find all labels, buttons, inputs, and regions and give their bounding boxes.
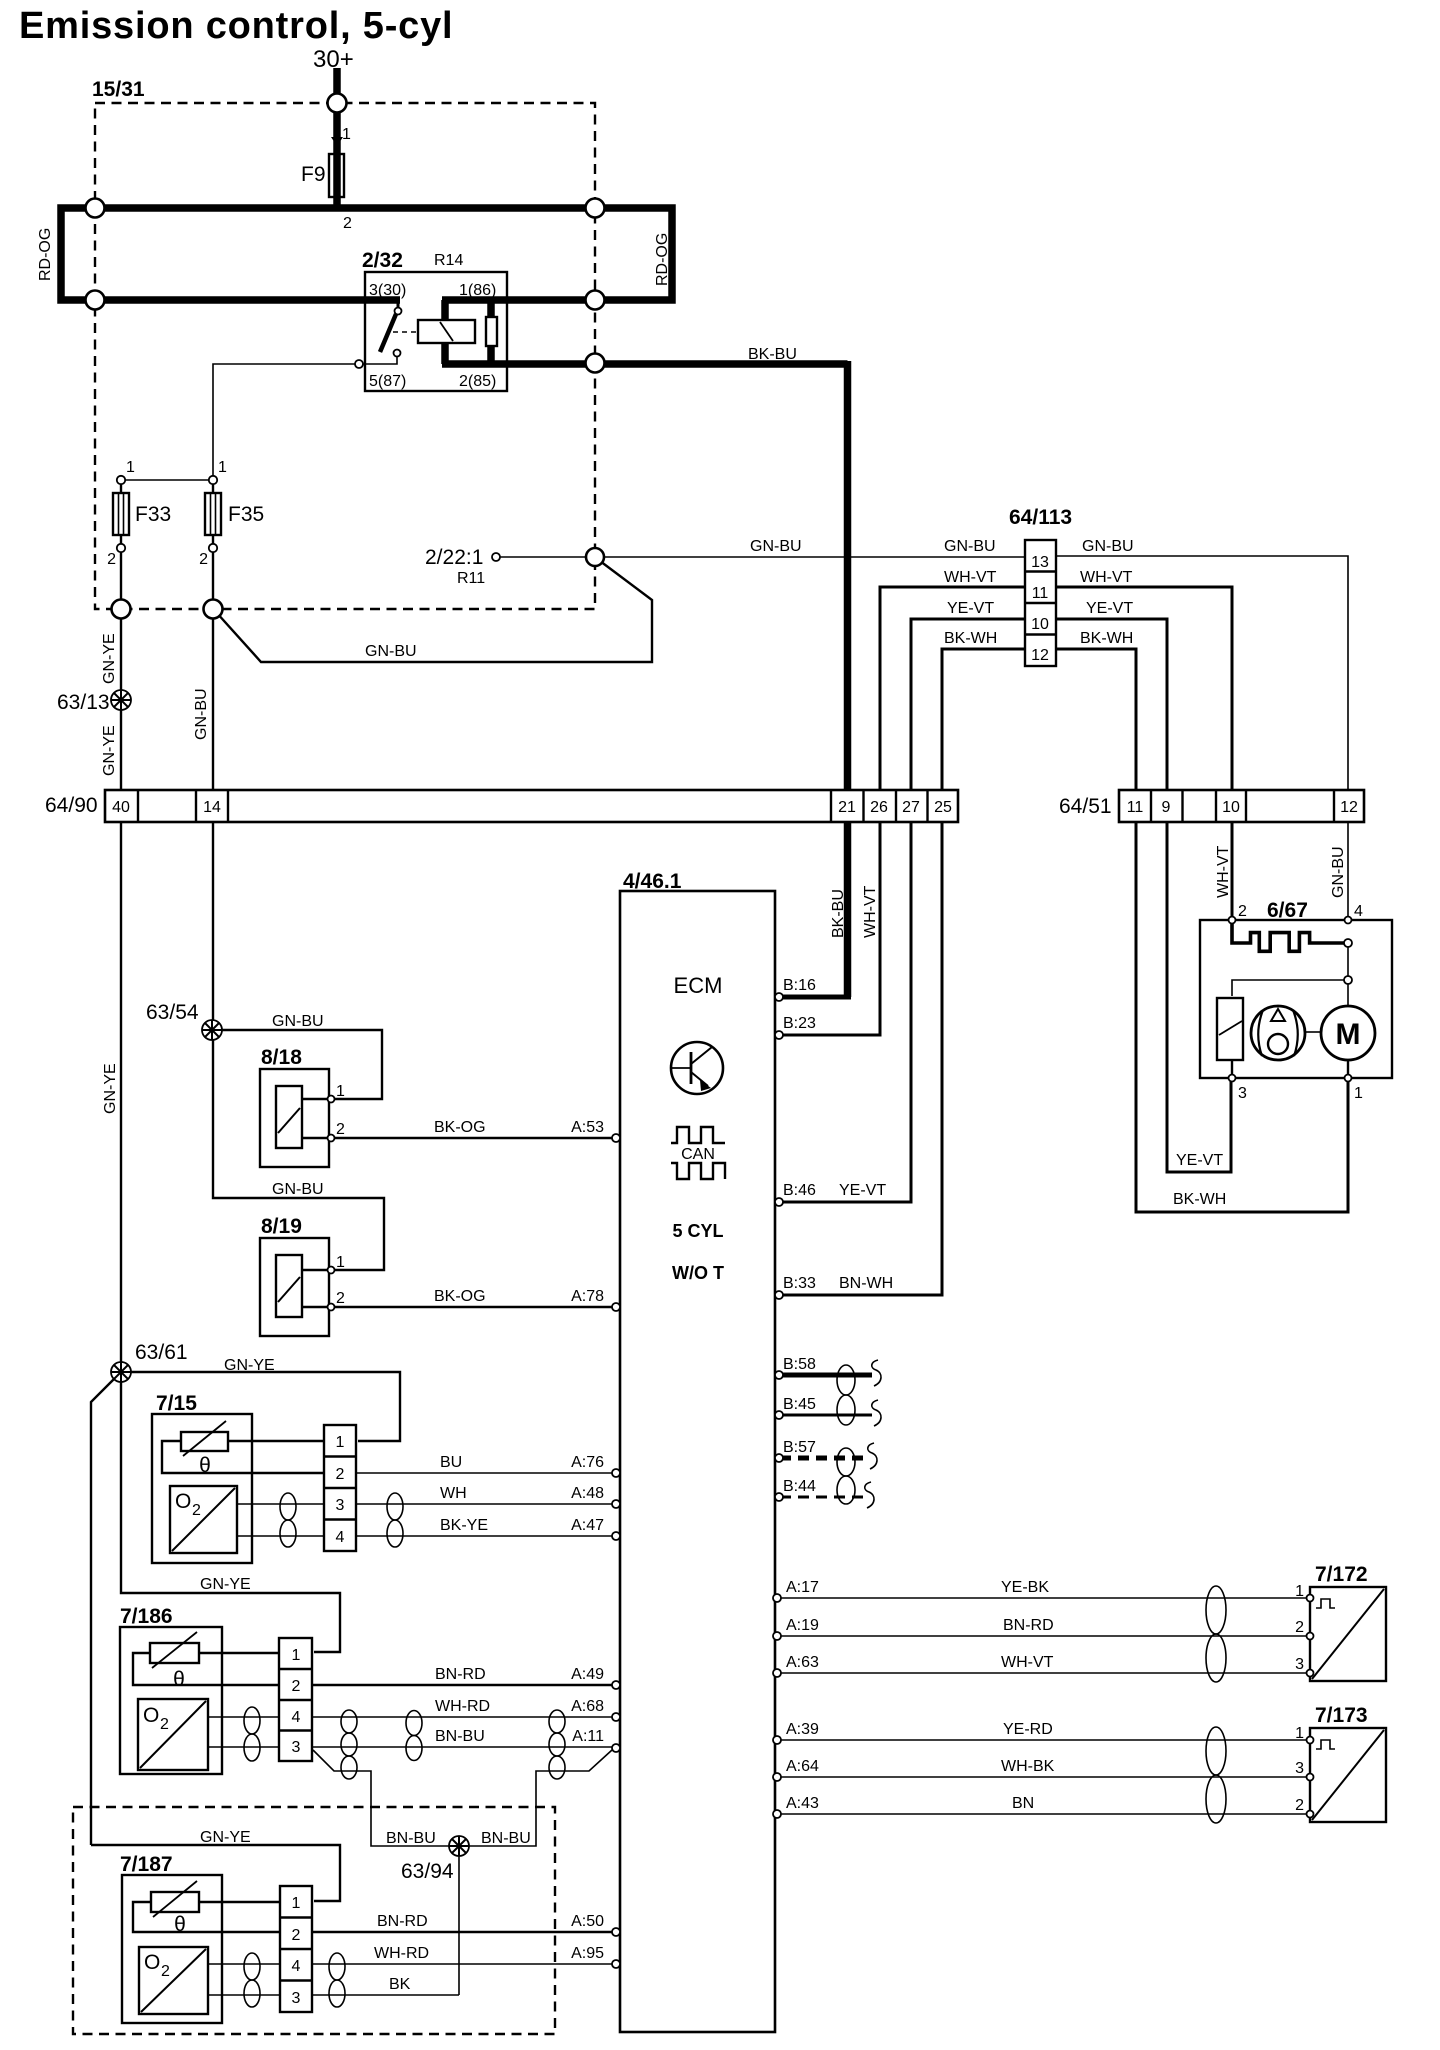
wire B:44 dashed stub	[780, 1496, 863, 1499]
break symbol B:57	[868, 1443, 877, 1469]
sender square wave	[1232, 923, 1344, 951]
level resistor 6/67	[1217, 998, 1243, 1060]
svg-text:2: 2	[343, 215, 352, 232]
svg-text:WH-VT: WH-VT	[944, 569, 997, 586]
connector 7/186	[279, 1638, 312, 1761]
svg-text:63/61: 63/61	[135, 1341, 188, 1364]
svg-text:1: 1	[336, 1434, 345, 1451]
dashed box 15/31	[95, 103, 595, 609]
svg-text:4: 4	[292, 1958, 301, 1975]
svg-text:2: 2	[336, 1466, 345, 1483]
svg-text:W/O T: W/O T	[672, 1263, 724, 1283]
node circles right dashed edge	[586, 199, 605, 218]
svg-text:3: 3	[292, 1990, 301, 2007]
svg-text:12: 12	[1031, 647, 1049, 664]
wire WH-RD to A:95	[312, 1963, 615, 1965]
svg-text:B:44: B:44	[783, 1478, 816, 1495]
svg-text:A:50: A:50	[571, 1913, 604, 1930]
svg-text:GN-BU: GN-BU	[272, 1013, 324, 1030]
svg-text:1: 1	[292, 1647, 301, 1664]
svg-text:6/67: 6/67	[1267, 899, 1308, 922]
svg-text:B:58: B:58	[783, 1356, 816, 1373]
svg-text:A:95: A:95	[571, 1945, 604, 1962]
twisted pair 7/15 right	[387, 1493, 403, 1547]
svg-text:2: 2	[199, 551, 208, 568]
pump unit 6/67 box	[1200, 920, 1392, 1078]
arrowhead on F9 feed	[331, 137, 343, 146]
break symbol B:45	[872, 1400, 881, 1426]
relay switch contact drop	[397, 300, 400, 308]
relay 2/32 R14 box	[365, 272, 507, 391]
svg-text:GN-BU: GN-BU	[750, 538, 802, 555]
relay switch contacts	[395, 308, 402, 315]
svg-text:BN-BU: BN-BU	[435, 1728, 485, 1745]
wire WH to A:48	[356, 1503, 615, 1505]
wire GN-BU down to 8/19	[213, 1040, 384, 1270]
svg-text:2: 2	[292, 1678, 301, 1695]
wire BK-OG 8/19 to A:78	[335, 1306, 615, 1308]
svg-text:WH-VT: WH-VT	[1215, 845, 1232, 898]
svg-text:A:78: A:78	[571, 1288, 604, 1305]
wire node to node	[1347, 947, 1349, 976]
svg-text:1: 1	[1295, 1725, 1304, 1742]
svg-text:B:33: B:33	[783, 1275, 816, 1292]
svg-text:GN-YE: GN-YE	[200, 1576, 251, 1593]
wire shield 7/186 via 63/94	[313, 1750, 612, 1846]
relay resistor	[486, 317, 497, 346]
wire BK-WH right of 64/113	[1056, 649, 1348, 1212]
svg-text:WH: WH	[440, 1485, 467, 1502]
svg-text:4: 4	[292, 1709, 301, 1726]
wire YE-VT via cell 27 to B:46	[780, 619, 1025, 1202]
connector 64/113	[1025, 540, 1056, 666]
svg-text:25: 25	[934, 799, 952, 816]
wire WH-VT A:63 to 7/172 pin3	[778, 1672, 1306, 1674]
svg-text:1: 1	[1295, 1583, 1304, 1600]
svg-text:A:48: A:48	[571, 1485, 604, 1502]
wire 63/94 down to BK	[458, 1856, 460, 1995]
svg-text:B:45: B:45	[783, 1396, 816, 1413]
svg-text:A:49: A:49	[571, 1666, 604, 1683]
pin 4 of 6/67	[1345, 917, 1352, 924]
svg-text:GN-YE: GN-YE	[101, 633, 118, 684]
fuse F9	[329, 154, 344, 197]
relay dashed actuator link	[393, 331, 418, 333]
svg-text:2: 2	[160, 1716, 169, 1733]
svg-text:Emission control, 5-cyl: Emission control, 5-cyl	[19, 5, 453, 47]
ECM 4/46.1 box	[620, 891, 775, 2032]
svg-text:WH-VT: WH-VT	[862, 885, 879, 938]
svg-text:A:19: A:19	[786, 1617, 819, 1634]
node circles bottom dashed edge	[112, 600, 131, 619]
fuel pump symbol	[1251, 1006, 1305, 1060]
wire 5(87) to contact	[363, 356, 397, 364]
svg-text:3: 3	[336, 1497, 345, 1514]
wire GN-BU branch to F35 node	[216, 561, 652, 662]
svg-text:2(85): 2(85)	[459, 373, 496, 390]
svg-text:8/19: 8/19	[261, 1215, 302, 1238]
wire YE-VT right of 64/113	[1056, 619, 1231, 1172]
CAN symbol	[671, 1127, 725, 1179]
wire F33-F35 pin1 link	[121, 479, 213, 481]
svg-text:A:11: A:11	[572, 1728, 604, 1745]
node on wave	[1344, 939, 1352, 947]
svg-text:5 CYL: 5 CYL	[672, 1221, 723, 1241]
wire YE-RD A:39 to 7/173 pin1	[778, 1739, 1306, 1741]
fuse F33	[117, 476, 125, 484]
svg-text:WH-RD: WH-RD	[435, 1698, 490, 1715]
svg-text:2: 2	[107, 551, 116, 568]
svg-text:9: 9	[1162, 799, 1171, 816]
svg-text:2: 2	[1295, 1797, 1304, 1814]
svg-text:2: 2	[1295, 1619, 1304, 1636]
svg-text:BK-OG: BK-OG	[434, 1288, 486, 1305]
twisted pair 7/186 left	[244, 1707, 260, 1761]
svg-text:2: 2	[292, 1927, 301, 1944]
svg-text:1: 1	[218, 459, 227, 476]
wire sender link	[1232, 980, 1344, 996]
svg-text:1: 1	[1354, 1085, 1363, 1102]
svg-text:GN-YE: GN-YE	[102, 1063, 119, 1114]
svg-text:2: 2	[336, 1121, 345, 1138]
svg-text:YE-VT: YE-VT	[1086, 600, 1133, 617]
svg-text:B:16: B:16	[783, 977, 816, 994]
wire BN A:43 to 7/173 pin2	[778, 1813, 1306, 1815]
pump motor M	[1321, 1006, 1375, 1060]
relay coil feeds thick	[442, 296, 507, 304]
svg-text:1: 1	[336, 1254, 345, 1271]
svg-text:WH-VT: WH-VT	[1001, 1654, 1054, 1671]
svg-text:YE-VT: YE-VT	[839, 1182, 886, 1199]
wire BK-BU thick from 2(85)	[442, 360, 848, 368]
svg-text:GN-BU: GN-BU	[272, 1181, 324, 1198]
wire B:57 dashed stub	[780, 1456, 866, 1461]
wire GN-BU to 64/113 pin 13	[500, 556, 1025, 558]
twisted pair 7/173	[1206, 1727, 1226, 1823]
svg-text:GN-BU: GN-BU	[1330, 846, 1347, 898]
svg-text:B:23: B:23	[783, 1015, 816, 1032]
svg-text:3: 3	[1238, 1085, 1247, 1102]
svg-text:12: 12	[1340, 799, 1358, 816]
wire YE-BK A:17 to 7/172 pin1	[778, 1597, 1306, 1599]
svg-text:F9: F9	[301, 163, 326, 186]
svg-text:BK-WH: BK-WH	[1080, 630, 1133, 647]
svg-text:YE-BK: YE-BK	[1001, 1579, 1049, 1596]
svg-text:7/172: 7/172	[1315, 1563, 1368, 1586]
svg-text:2: 2	[336, 1290, 345, 1307]
svg-text:BK-WH: BK-WH	[944, 630, 997, 647]
svg-text:11: 11	[1032, 585, 1049, 602]
svg-text:YE-VT: YE-VT	[1176, 1152, 1223, 1169]
svg-text:7/173: 7/173	[1315, 1704, 1368, 1727]
svg-text:2: 2	[192, 1502, 201, 1519]
svg-text:4: 4	[1354, 903, 1363, 920]
svg-text:3: 3	[292, 1739, 301, 1756]
strip 64/90	[105, 790, 958, 822]
pin 2 of 6/67	[1229, 917, 1236, 924]
wire GN-BU right of 64/113	[1056, 556, 1348, 918]
svg-text:GN-YE: GN-YE	[101, 725, 118, 776]
node circle top dashed	[328, 94, 347, 113]
solenoid valve 8/19	[260, 1238, 331, 1336]
svg-text:WH-BK: WH-BK	[1001, 1758, 1055, 1775]
svg-text:BK-OG: BK-OG	[434, 1119, 486, 1136]
twisted pair B:57/B:44	[837, 1448, 855, 1504]
svg-text:BU: BU	[440, 1454, 462, 1471]
O2 sensor 7/187	[122, 1875, 280, 2023]
svg-text:YE-RD: YE-RD	[1003, 1721, 1053, 1738]
svg-text:11: 11	[1127, 799, 1144, 816]
node circles left dashed edge	[86, 199, 105, 218]
wire BK to 63/94	[312, 1994, 459, 1996]
svg-text:BN-BU: BN-BU	[481, 1830, 531, 1847]
svg-text:RD-OG: RD-OG	[654, 233, 671, 286]
svg-text:4/46.1: 4/46.1	[623, 870, 682, 893]
svg-text:64/90: 64/90	[45, 794, 98, 817]
svg-text:64/113: 64/113	[1009, 506, 1072, 529]
svg-text:BN-RD: BN-RD	[435, 1666, 486, 1683]
svg-text:CAN: CAN	[681, 1146, 715, 1163]
wire BN-BU to A:11	[312, 1746, 613, 1748]
splice 63/54	[202, 1020, 222, 1040]
svg-text:7/15: 7/15	[156, 1392, 197, 1415]
svg-text:BN-WH: BN-WH	[839, 1275, 893, 1292]
twisted pair 7/186 right triple	[341, 1710, 357, 1779]
svg-text:M: M	[1336, 1018, 1361, 1051]
wire BN-RD to A:50	[312, 1931, 615, 1933]
wire GN-BU down from F35 node	[212, 618, 214, 790]
svg-text:A:53: A:53	[571, 1119, 604, 1136]
svg-text:1: 1	[126, 459, 135, 476]
wire BN-RD A:19 to 7/172 pin2	[778, 1635, 1306, 1637]
svg-text:WH-RD: WH-RD	[374, 1945, 429, 1962]
twisted pair 7/187 left	[244, 1953, 260, 2007]
svg-text:A:47: A:47	[571, 1517, 604, 1534]
ECM pin circles right	[775, 993, 783, 1001]
twisted pair 7/172	[1206, 1586, 1226, 1682]
wire WH-RD to A:68	[312, 1716, 615, 1718]
twisted pair 7/187 right	[329, 1953, 345, 2007]
svg-text:3: 3	[1295, 1760, 1304, 1777]
wire BK-OG 8/18 to A:53	[335, 1137, 615, 1139]
relay switch arm	[380, 314, 396, 352]
svg-text:2/22:1: 2/22:1	[425, 546, 483, 569]
svg-text:21: 21	[838, 799, 856, 816]
svg-text:A:17: A:17	[786, 1579, 819, 1596]
svg-text:A:64: A:64	[786, 1758, 819, 1775]
svg-text:B:57: B:57	[783, 1439, 816, 1456]
svg-text:YE-VT: YE-VT	[947, 600, 994, 617]
wire B:16 thick	[780, 995, 851, 1000]
twisted pair 7/15 left	[280, 1493, 296, 1547]
twisted pair B:58/B:45	[837, 1365, 855, 1425]
svg-text:O: O	[175, 1490, 191, 1513]
wire GN-YE diagonal from 63/61	[91, 1379, 114, 1845]
wire GN-BU to 8/18 pin1	[222, 1030, 382, 1099]
svg-text:WH-VT: WH-VT	[1080, 569, 1133, 586]
svg-text:1: 1	[292, 1895, 301, 1912]
wire GN-YE to 7/186	[121, 1382, 340, 1652]
wire BK-YE to A:47	[356, 1535, 615, 1537]
svg-text:10: 10	[1222, 799, 1240, 816]
wire GN-YE down from F33 node	[120, 618, 122, 790]
O2 sensor 7/186	[120, 1627, 279, 1774]
svg-text:BN: BN	[1012, 1795, 1034, 1812]
svg-text:GN-BU: GN-BU	[1082, 538, 1134, 555]
wire GN-YE below strip to 63/61	[120, 822, 122, 1372]
svg-text:2: 2	[161, 1963, 170, 1980]
connector 7/15	[324, 1425, 356, 1551]
wire WH-VT right of 64/113	[1056, 587, 1232, 918]
svg-text:26: 26	[870, 799, 888, 816]
wire BN-RD to A:49	[312, 1684, 615, 1686]
svg-text:GN-BU: GN-BU	[193, 688, 210, 740]
wire WH-VT via cell 26 to B:23	[780, 587, 1025, 1035]
wire resistor to pin3	[1231, 1060, 1233, 1078]
O2 sensor 7/15	[152, 1414, 324, 1563]
solenoid valve 8/18	[260, 1069, 331, 1167]
dashed box 7/187	[73, 1807, 555, 2034]
svg-text:14: 14	[203, 799, 221, 816]
wire BU to A:76	[356, 1472, 615, 1474]
svg-text:27: 27	[902, 799, 920, 816]
splice 63/61	[111, 1362, 131, 1382]
svg-text:63/54: 63/54	[146, 1001, 199, 1024]
svg-text:63/94: 63/94	[401, 1860, 454, 1883]
svg-text:15/31: 15/31	[92, 78, 145, 101]
svg-text:BK: BK	[389, 1976, 411, 1993]
wire RD-OG bus loop	[61, 208, 672, 300]
motor wires	[1347, 984, 1349, 1006]
svg-text:BK-BU: BK-BU	[748, 346, 797, 363]
svg-text:θ: θ	[173, 1668, 185, 1691]
svg-text:A:39: A:39	[786, 1721, 819, 1738]
svg-text:GN-BU: GN-BU	[365, 643, 417, 660]
svg-text:ECM: ECM	[674, 973, 723, 998]
relay coil	[418, 320, 475, 343]
fuse F35	[209, 476, 217, 484]
wire GN-BU below strip to 63/54	[212, 822, 214, 1030]
svg-text:GN-YE: GN-YE	[224, 1357, 275, 1374]
svg-text:40: 40	[112, 799, 130, 816]
wire WH-BK A:64 to 7/173 pin3	[778, 1776, 1306, 1778]
svg-text:BN-BU: BN-BU	[386, 1830, 436, 1847]
wire GN-YE to 7/15 pin1	[131, 1372, 400, 1441]
svg-text:A:76: A:76	[571, 1454, 604, 1471]
module 7/173	[1310, 1728, 1386, 1822]
svg-text:BK-WH: BK-WH	[1173, 1191, 1226, 1208]
break symbol B:44	[865, 1482, 874, 1508]
strip 64/51	[1119, 790, 1364, 822]
wire GN-YE to 7/187	[91, 1845, 340, 1901]
svg-text:O: O	[144, 1951, 160, 1974]
svg-text:63/13: 63/13	[57, 691, 110, 714]
svg-text:1: 1	[342, 126, 351, 143]
link pump to motor	[1305, 1031, 1321, 1033]
transistor symbol	[671, 1042, 723, 1094]
svg-text:BK-YE: BK-YE	[440, 1517, 488, 1534]
svg-text:BN-RD: BN-RD	[377, 1913, 428, 1930]
svg-text:3(30): 3(30)	[369, 282, 406, 299]
svg-text:BN-RD: BN-RD	[1003, 1617, 1054, 1634]
svg-text:B:46: B:46	[783, 1182, 816, 1199]
svg-text:8/18: 8/18	[261, 1046, 302, 1069]
svg-text:A:43: A:43	[786, 1795, 819, 1812]
svg-text:GN-YE: GN-YE	[200, 1829, 251, 1846]
splice 63/94	[449, 1836, 469, 1856]
svg-text:O: O	[143, 1704, 159, 1727]
svg-text:2: 2	[1238, 903, 1247, 920]
svg-text:R11: R11	[457, 570, 485, 587]
svg-text:2/32: 2/32	[362, 249, 403, 272]
wire 5(87) to F35 pin 1	[213, 364, 355, 476]
svg-text:A:68: A:68	[571, 1698, 604, 1715]
module 7/172	[1310, 1587, 1386, 1681]
wire B:45 stub	[780, 1414, 872, 1417]
wire BK-WH via cell 25 to B:33	[780, 649, 1025, 1295]
svg-text:BK-BU: BK-BU	[830, 889, 847, 938]
connector 7/187	[280, 1886, 312, 2012]
svg-text:F35: F35	[228, 503, 264, 526]
svg-text:7/187: 7/187	[120, 1853, 173, 1876]
svg-text:1: 1	[336, 1083, 345, 1100]
svg-text:RD-OG: RD-OG	[37, 228, 54, 281]
terminal circle 5(87)	[355, 360, 363, 368]
svg-text:64/51: 64/51	[1059, 795, 1112, 818]
svg-text:5(87): 5(87)	[369, 373, 406, 390]
wire B:58 shielded stub	[780, 1373, 872, 1378]
svg-text:F33: F33	[135, 503, 171, 526]
svg-text:10: 10	[1031, 616, 1049, 633]
svg-text:3: 3	[1295, 1656, 1304, 1673]
break symbol B:58	[872, 1360, 881, 1386]
svg-text:R14: R14	[434, 252, 463, 269]
splice 63/13	[111, 690, 131, 710]
svg-text:4: 4	[336, 1529, 345, 1546]
svg-text:7/186: 7/186	[120, 1605, 173, 1628]
wire 30+ feed	[333, 68, 341, 208]
svg-text:A:63: A:63	[786, 1654, 819, 1671]
svg-text:GN-BU: GN-BU	[944, 538, 996, 555]
svg-text:13: 13	[1031, 554, 1049, 571]
